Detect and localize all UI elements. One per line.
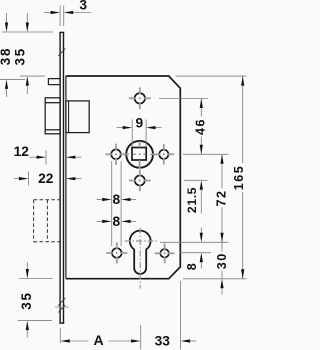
bottom hole right xyxy=(155,243,175,263)
extension line case top left xyxy=(20,75,45,77)
extension tick dim 22 xyxy=(28,172,30,186)
extension line follower centre right xyxy=(183,153,229,155)
extension line tab top left xyxy=(0,78,25,80)
lock case front edge xyxy=(65,76,67,279)
extension line case top right xyxy=(176,75,247,77)
dimension 8 (right lower) xyxy=(185,228,203,271)
svg-text:8: 8 xyxy=(185,263,199,270)
dimension 46 (right) xyxy=(193,99,207,155)
follower (spindle hub) xyxy=(124,141,156,169)
svg-text:8: 8 xyxy=(113,214,121,229)
svg-text:22: 22 xyxy=(38,171,54,186)
dimension 38 (left) xyxy=(0,13,13,97)
deadbolt hidden (dashed) xyxy=(34,200,61,242)
extension line cylinder centre right xyxy=(160,241,229,243)
dimension 22 xyxy=(14,171,82,186)
dimension 72 (right) xyxy=(214,154,228,242)
extension line cylinder axis bottom xyxy=(140,325,142,350)
fixing tab xyxy=(48,79,60,85)
dimension 21.5 (right) xyxy=(185,180,203,213)
dimension 9 (follower square) xyxy=(117,115,162,130)
latch bolt body xyxy=(66,101,89,133)
dimension 30 (right) xyxy=(215,242,229,294)
extension line bottom holes right xyxy=(179,252,211,254)
extension lines dim 9 xyxy=(132,120,146,147)
latch bolt head xyxy=(45,98,60,134)
svg-text:A: A xyxy=(93,332,103,348)
faceplate break mark lower xyxy=(55,298,69,313)
faceplate break mark upper xyxy=(58,49,65,57)
svg-text:12: 12 xyxy=(14,144,30,159)
extension line faceplate top left xyxy=(2,31,53,33)
svg-text:9: 9 xyxy=(136,115,144,130)
dimension 33 xyxy=(155,334,197,349)
extension line faceplate bottom left xyxy=(18,320,52,322)
svg-text:30: 30 xyxy=(215,252,229,269)
bottom hole left xyxy=(106,242,127,263)
follower side hole right xyxy=(153,144,174,165)
svg-text:35: 35 xyxy=(19,291,34,310)
dimension A (backset) xyxy=(60,332,140,348)
dimension 8 lower (hole dia) xyxy=(97,214,137,229)
svg-text:72: 72 xyxy=(214,189,228,206)
extension line wc hole right xyxy=(184,179,208,181)
dimension 12 xyxy=(14,144,82,159)
extension tick dim 12 xyxy=(45,151,47,165)
extension lines dim 3 xyxy=(60,6,64,27)
svg-text:38: 38 xyxy=(0,47,13,66)
top hole xyxy=(129,87,151,109)
dimension 165 (right) xyxy=(232,76,246,279)
extension line case bottom left xyxy=(19,278,53,280)
svg-text:46: 46 xyxy=(193,118,207,135)
dimension 35 (left upper) xyxy=(12,13,29,94)
faceplate xyxy=(59,32,64,324)
extension line case right bottom xyxy=(180,281,182,350)
extension line case bottom right xyxy=(183,278,247,280)
dimension 8 upper (hole dia) xyxy=(97,192,137,207)
svg-text:33: 33 xyxy=(155,334,171,349)
extension tick dim A left xyxy=(59,328,61,343)
dimension 35 (left lower) xyxy=(19,262,34,338)
svg-text:3: 3 xyxy=(79,0,87,13)
dimension 3 (faceplate thickness) xyxy=(44,0,91,14)
svg-text:21.5: 21.5 xyxy=(185,187,199,213)
wc bolt hole below follower xyxy=(129,170,151,192)
lock case outline xyxy=(66,76,180,279)
svg-text:165: 165 xyxy=(232,165,246,191)
svg-text:35: 35 xyxy=(12,47,27,65)
follower side hole left xyxy=(105,144,126,165)
svg-text:8: 8 xyxy=(113,192,121,207)
extension lines dim 8 tangents xyxy=(112,161,121,246)
euro profile cylinder hole xyxy=(125,228,158,289)
extension line top hole right xyxy=(159,98,208,100)
